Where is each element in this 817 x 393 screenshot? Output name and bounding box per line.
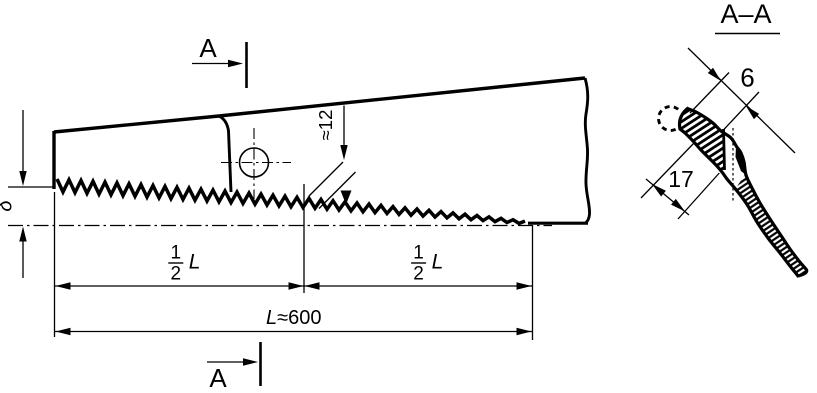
svg-text:A: A	[209, 363, 227, 393]
svg-text:L: L	[189, 251, 201, 274]
svg-text:6: 6	[740, 63, 754, 93]
svg-text:A: A	[199, 33, 217, 63]
svg-text:A–A: A–A	[720, 0, 771, 29]
svg-text:2: 2	[413, 264, 424, 285]
svg-text:≈12: ≈12	[315, 110, 336, 141]
svg-text:1: 1	[413, 243, 424, 264]
svg-text:δ: δ	[0, 200, 16, 212]
svg-text:1: 1	[171, 243, 182, 264]
svg-text:17: 17	[668, 166, 694, 192]
svg-text:L≈600: L≈600	[266, 307, 321, 329]
svg-text:L: L	[432, 251, 444, 274]
svg-text:2: 2	[171, 264, 182, 285]
